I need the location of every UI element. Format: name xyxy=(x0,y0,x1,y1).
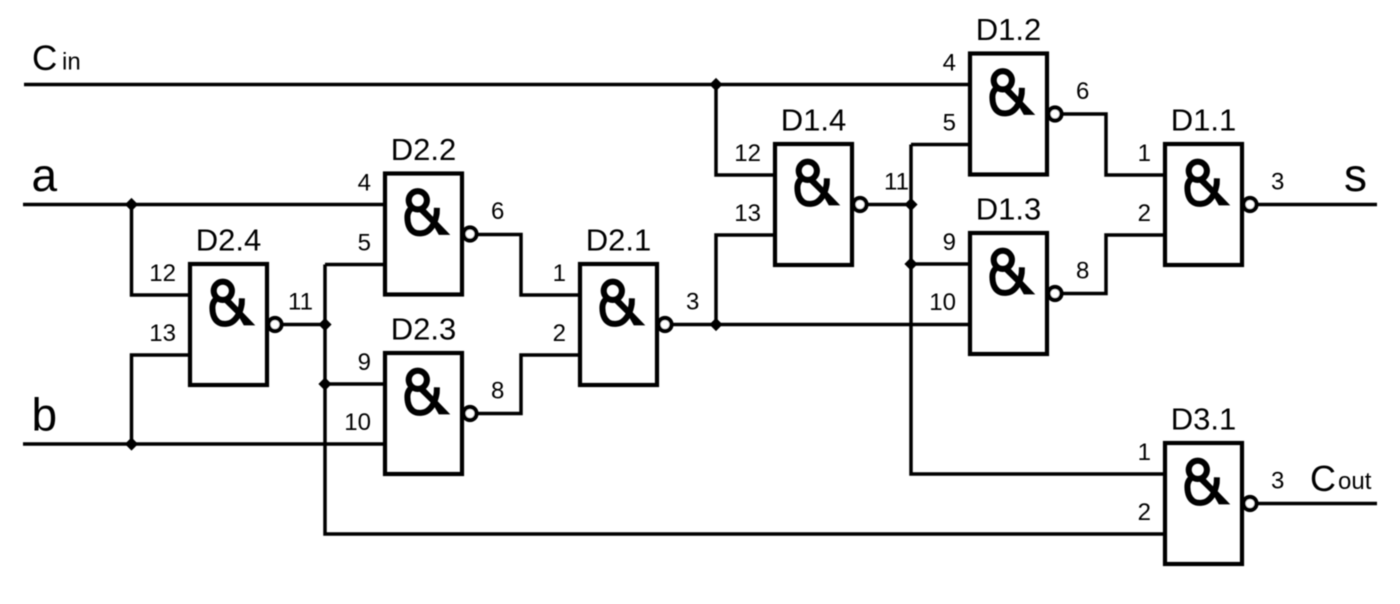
svg-text:10: 10 xyxy=(344,409,371,436)
svg-text:D2.2: D2.2 xyxy=(391,132,456,167)
wire D2.2 out 6 to D2.1 pin1 xyxy=(477,235,581,296)
svg-text:D1.4: D1.4 xyxy=(781,103,846,138)
svg-text:D1.3: D1.3 xyxy=(976,192,1041,227)
junction node 11 (D1.4 out) xyxy=(904,198,917,211)
NAND gate D2.3 xyxy=(385,312,477,475)
svg-text:D3.1: D3.1 xyxy=(1171,402,1236,437)
junction node 3 / D1.4 pin13 xyxy=(709,318,722,331)
svg-text:11: 11 xyxy=(288,289,313,316)
NAND gate D1.4 xyxy=(775,103,867,266)
net a wire xyxy=(23,203,385,207)
svg-text:3: 3 xyxy=(686,289,699,316)
junction node 11 / D2.3 pin9 xyxy=(318,377,331,390)
net Cin wire xyxy=(24,83,970,87)
NAND gate D2.2 xyxy=(385,132,477,295)
svg-text:13: 13 xyxy=(734,200,761,227)
wire D1.1 out to s xyxy=(1257,203,1378,207)
svg-text:3: 3 xyxy=(1271,468,1284,495)
NAND gate D2.1 xyxy=(580,223,672,386)
wire node11 to D2.3 pin9 xyxy=(325,382,385,386)
svg-text:12: 12 xyxy=(734,140,761,167)
net b wire xyxy=(23,442,385,446)
wire node3 to D1.4 pin13 xyxy=(716,235,775,325)
NAND gate D1.3 xyxy=(970,192,1062,355)
svg-text:b: b xyxy=(32,389,58,441)
net label Cout xyxy=(1310,458,1372,499)
net label Cin xyxy=(32,39,81,78)
svg-text:5: 5 xyxy=(943,110,956,137)
svg-text:D2.1: D2.1 xyxy=(586,223,651,258)
wire D1.4 node11 vertical + run to D3.1 pin1 xyxy=(911,145,1165,475)
svg-text:C: C xyxy=(32,39,57,78)
wire D1.3 out 8 to D1.1 pin2 xyxy=(1062,235,1166,294)
svg-text:12: 12 xyxy=(149,260,176,287)
junction a / D2.4 pin12 xyxy=(125,198,138,211)
wire D2.1 out node 3 to D1.3 pin10 xyxy=(672,323,971,327)
junction node 11 / D1.3 pin9 xyxy=(904,257,917,270)
svg-text:13: 13 xyxy=(149,320,176,347)
svg-text:s: s xyxy=(1344,149,1367,201)
svg-text:6: 6 xyxy=(491,198,504,225)
svg-text:4: 4 xyxy=(943,50,956,77)
svg-text:1: 1 xyxy=(1138,140,1151,167)
svg-text:5: 5 xyxy=(358,230,371,257)
wire Cin to D1.4 pin12 xyxy=(716,85,775,176)
wire D3.1 out to Cout xyxy=(1257,502,1378,506)
wire D2.3 out 8 to D2.1 pin2 xyxy=(477,355,581,414)
NAND gate D2.4 xyxy=(190,223,282,386)
wire node11 to D1.2 pin5 xyxy=(911,143,970,147)
wire D1.2 out 6 to D1.1 pin1 xyxy=(1062,114,1166,175)
junction Cin / D1.4 pin12 xyxy=(709,78,722,91)
wire node11 to D2.2 pin5 xyxy=(325,263,385,267)
wire node11 to D1.3 pin9 xyxy=(911,262,970,266)
svg-text:9: 9 xyxy=(358,349,371,376)
NAND gate D1.1 xyxy=(1165,103,1257,266)
svg-text:11: 11 xyxy=(884,169,909,196)
svg-text:1: 1 xyxy=(553,260,566,287)
svg-text:C: C xyxy=(1310,458,1336,499)
wire b to D2.4 pin13 xyxy=(132,355,191,444)
svg-text:2: 2 xyxy=(1138,200,1151,227)
wire D2.4 output node 11 xyxy=(282,323,326,327)
svg-text:10: 10 xyxy=(929,289,956,316)
junction node 11 (D2.4 out) xyxy=(318,318,331,331)
svg-text:8: 8 xyxy=(1076,258,1089,285)
svg-text:D2.4: D2.4 xyxy=(196,223,261,258)
NAND gate D3.1 xyxy=(1165,402,1257,565)
svg-text:2: 2 xyxy=(553,320,566,347)
svg-text:4: 4 xyxy=(358,170,371,197)
svg-text:6: 6 xyxy=(1076,78,1089,105)
wire a to D2.4 pin12 xyxy=(132,205,191,296)
svg-text:2: 2 xyxy=(1138,499,1151,526)
svg-text:1: 1 xyxy=(1138,439,1151,466)
svg-text:in: in xyxy=(62,49,81,76)
svg-text:a: a xyxy=(32,149,58,201)
svg-text:D1.1: D1.1 xyxy=(1171,103,1236,138)
svg-text:D2.3: D2.3 xyxy=(391,312,456,347)
junction b / D2.4 pin13 xyxy=(125,437,138,450)
svg-text:out: out xyxy=(1338,468,1372,495)
svg-text:9: 9 xyxy=(943,229,956,256)
svg-text:3: 3 xyxy=(1271,169,1284,196)
wire D1.4 output node 11 xyxy=(867,203,912,207)
svg-text:D1.2: D1.2 xyxy=(976,12,1041,47)
svg-text:8: 8 xyxy=(491,378,504,405)
wire node11 vertical + bottom run to D3.1 pin2 xyxy=(325,265,1165,535)
NAND gate D1.2 xyxy=(970,12,1062,175)
